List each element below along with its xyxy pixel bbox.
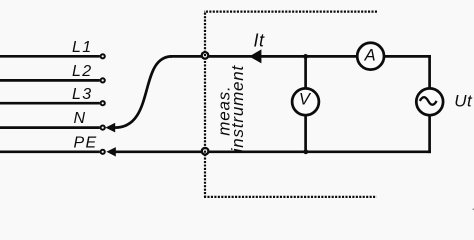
wire top (curve join to right corner) (170, 55, 431, 58)
junction dot bottom (V branch) (303, 149, 308, 154)
wire PE (0, 150, 100, 153)
svg-text:Ut: Ut (454, 92, 473, 111)
wire bottom (PE arrow to right corner) (115, 150, 431, 153)
svg-text:PE: PE (74, 135, 98, 152)
arrowhead It (current direction) (249, 49, 261, 63)
wire L3 (0, 102, 100, 105)
arrowhead into PE terminal (106, 147, 115, 156)
dashed box: top edge (204, 11, 377, 13)
svg-text:A: A (364, 46, 377, 64)
corner artifact (473, 209, 474, 210)
terminal L2 (101, 78, 105, 82)
svg-text:L2: L2 (72, 63, 92, 80)
AC source Ut (416, 88, 443, 115)
terminal PE (101, 150, 105, 154)
node on box top (202, 52, 209, 59)
wire L1 (0, 55, 100, 58)
svg-text:instrument: instrument (228, 64, 247, 152)
wire curve from N arrow up to top wire (115, 56, 172, 127)
svg-text:N: N (74, 110, 86, 127)
ammeter A (357, 43, 384, 70)
dashed box: left edge (204, 12, 206, 197)
node on box bottom (202, 148, 209, 155)
svg-text:V: V (299, 90, 312, 108)
arrowhead into N terminal (105, 123, 115, 133)
svg-text:L1: L1 (72, 39, 92, 56)
wire L2 (0, 79, 100, 82)
voltmeter V (292, 88, 319, 115)
terminal L3 (101, 101, 105, 105)
wire V branch vertical (304, 56, 307, 151)
dashed box: bottom edge (204, 196, 377, 198)
svg-text:It: It (254, 30, 266, 50)
junction dot top (V branch) (303, 54, 308, 59)
label meas. instrument (rotated) (214, 64, 247, 152)
terminal N (101, 126, 105, 130)
wire right vertical (428, 55, 431, 153)
svg-text:L3: L3 (72, 86, 92, 103)
terminal L1 (101, 54, 105, 58)
wire N (0, 126, 100, 129)
